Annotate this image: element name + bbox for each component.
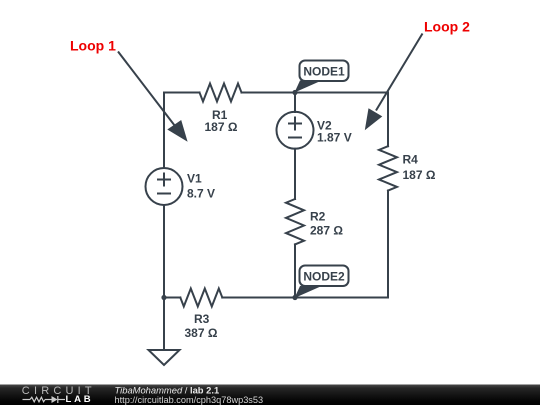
wire R3 to bottom-right corner [222,297,388,299]
wire right vertical upper (corner to R4) [387,93,389,147]
label V1 with value 8.7 V [187,172,215,201]
svg-text:187 Ω: 187 Ω [403,168,436,182]
V1 plus mark [158,179,170,181]
wire left junction to ground [163,298,165,351]
label R2 with value 287 Ohm [310,210,343,238]
wire top-left to R1 [164,92,200,94]
node NODE2 junction dot [292,295,297,300]
svg-text:Loop 2: Loop 2 [424,19,470,35]
Loop 2 arrowhead [365,108,383,130]
svg-text:R4: R4 [403,153,419,167]
svg-text:R2: R2 [310,210,326,224]
svg-text:R3: R3 [194,312,210,326]
V2 minus mark [289,137,301,139]
Loop 1 arrow shaft [118,52,175,127]
svg-text:287 Ω: 287 Ω [310,224,343,238]
svg-text:TibaMohammed / lab 2.1: TibaMohammed / lab 2.1 [115,384,220,395]
annotation Loop 1 [70,38,188,142]
svg-text:387 Ω: 387 Ω [185,326,218,340]
label R4 with value 187 Ohm [403,153,436,183]
wire R4 to bottom-right corner [387,191,389,298]
V1 minus mark [158,193,170,195]
wire bottom junction to R3 [164,297,180,299]
annotation Loop 2 [365,19,470,131]
node NODE1 junction dot [292,90,297,95]
node at left bottom junction dot [161,295,166,300]
node NODE1 callout [295,61,349,93]
wire left vertical lower (V1 to bottom junction) [163,205,165,298]
label R3 with value 387 Ohm [185,312,218,340]
svg-text:1.87 V: 1.87 V [317,131,352,145]
V2 plus mark [289,123,301,125]
voltage source V2 [277,112,314,149]
svg-text:V1: V1 [187,172,202,186]
wire R2 to NODE2 junction [294,244,296,297]
wire V2 to R2 [294,149,296,199]
resistor R3 [180,289,222,307]
svg-text:Loop 1: Loop 1 [70,38,116,54]
wire NODE1 down to V2 [294,93,296,113]
svg-text:187 Ω: 187 Ω [205,120,238,134]
logo resistor-diode glyph [23,396,66,403]
svg-text:LAB: LAB [66,394,94,405]
ground [149,350,180,365]
resistor R4 [379,146,397,190]
svg-text:http://circuitlab.com/cph3q78w: http://circuitlab.com/cph3q78wp3s53 [115,395,264,405]
wire R1 to NODE1 to top-right corner [242,92,389,94]
Loop 1 arrowhead [167,120,187,142]
resistor R1 [200,84,242,102]
wire left vertical upper (corner to V1) [163,93,165,169]
resistor R2 [286,199,304,244]
Loop 2 arrow shaft [376,34,423,111]
footer bar [0,385,540,405]
voltage source V1 [146,168,183,205]
label R1 with value 187 Ohm [205,108,238,134]
label V2 with value 1.87 V [317,119,352,145]
svg-text:NODE1: NODE1 [303,65,345,79]
svg-text:8.7 V: 8.7 V [187,187,215,201]
node NODE2 callout [295,266,349,299]
svg-text:NODE2: NODE2 [303,270,345,284]
